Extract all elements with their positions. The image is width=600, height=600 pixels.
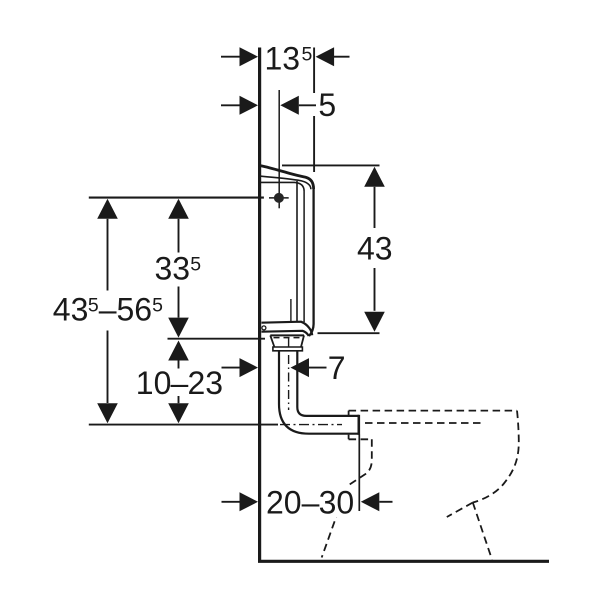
svg-text:5: 5: [88, 294, 99, 316]
svg-text:43: 43: [53, 292, 89, 328]
svg-text:43: 43: [357, 231, 393, 267]
svg-text:13: 13: [265, 41, 301, 77]
svg-text:5: 5: [302, 43, 313, 65]
svg-text:5: 5: [152, 294, 163, 316]
svg-text:23: 23: [188, 365, 224, 401]
svg-text:–: –: [171, 365, 189, 401]
svg-text:33: 33: [155, 251, 191, 287]
svg-text:10: 10: [136, 365, 172, 401]
svg-text:30: 30: [319, 485, 355, 521]
svg-text:–: –: [99, 292, 117, 328]
svg-text:7: 7: [328, 350, 346, 386]
svg-text:20: 20: [266, 485, 302, 521]
svg-text:5: 5: [318, 87, 336, 123]
svg-text:5: 5: [190, 253, 201, 275]
svg-text:–: –: [302, 485, 320, 521]
svg-text:56: 56: [117, 292, 153, 328]
